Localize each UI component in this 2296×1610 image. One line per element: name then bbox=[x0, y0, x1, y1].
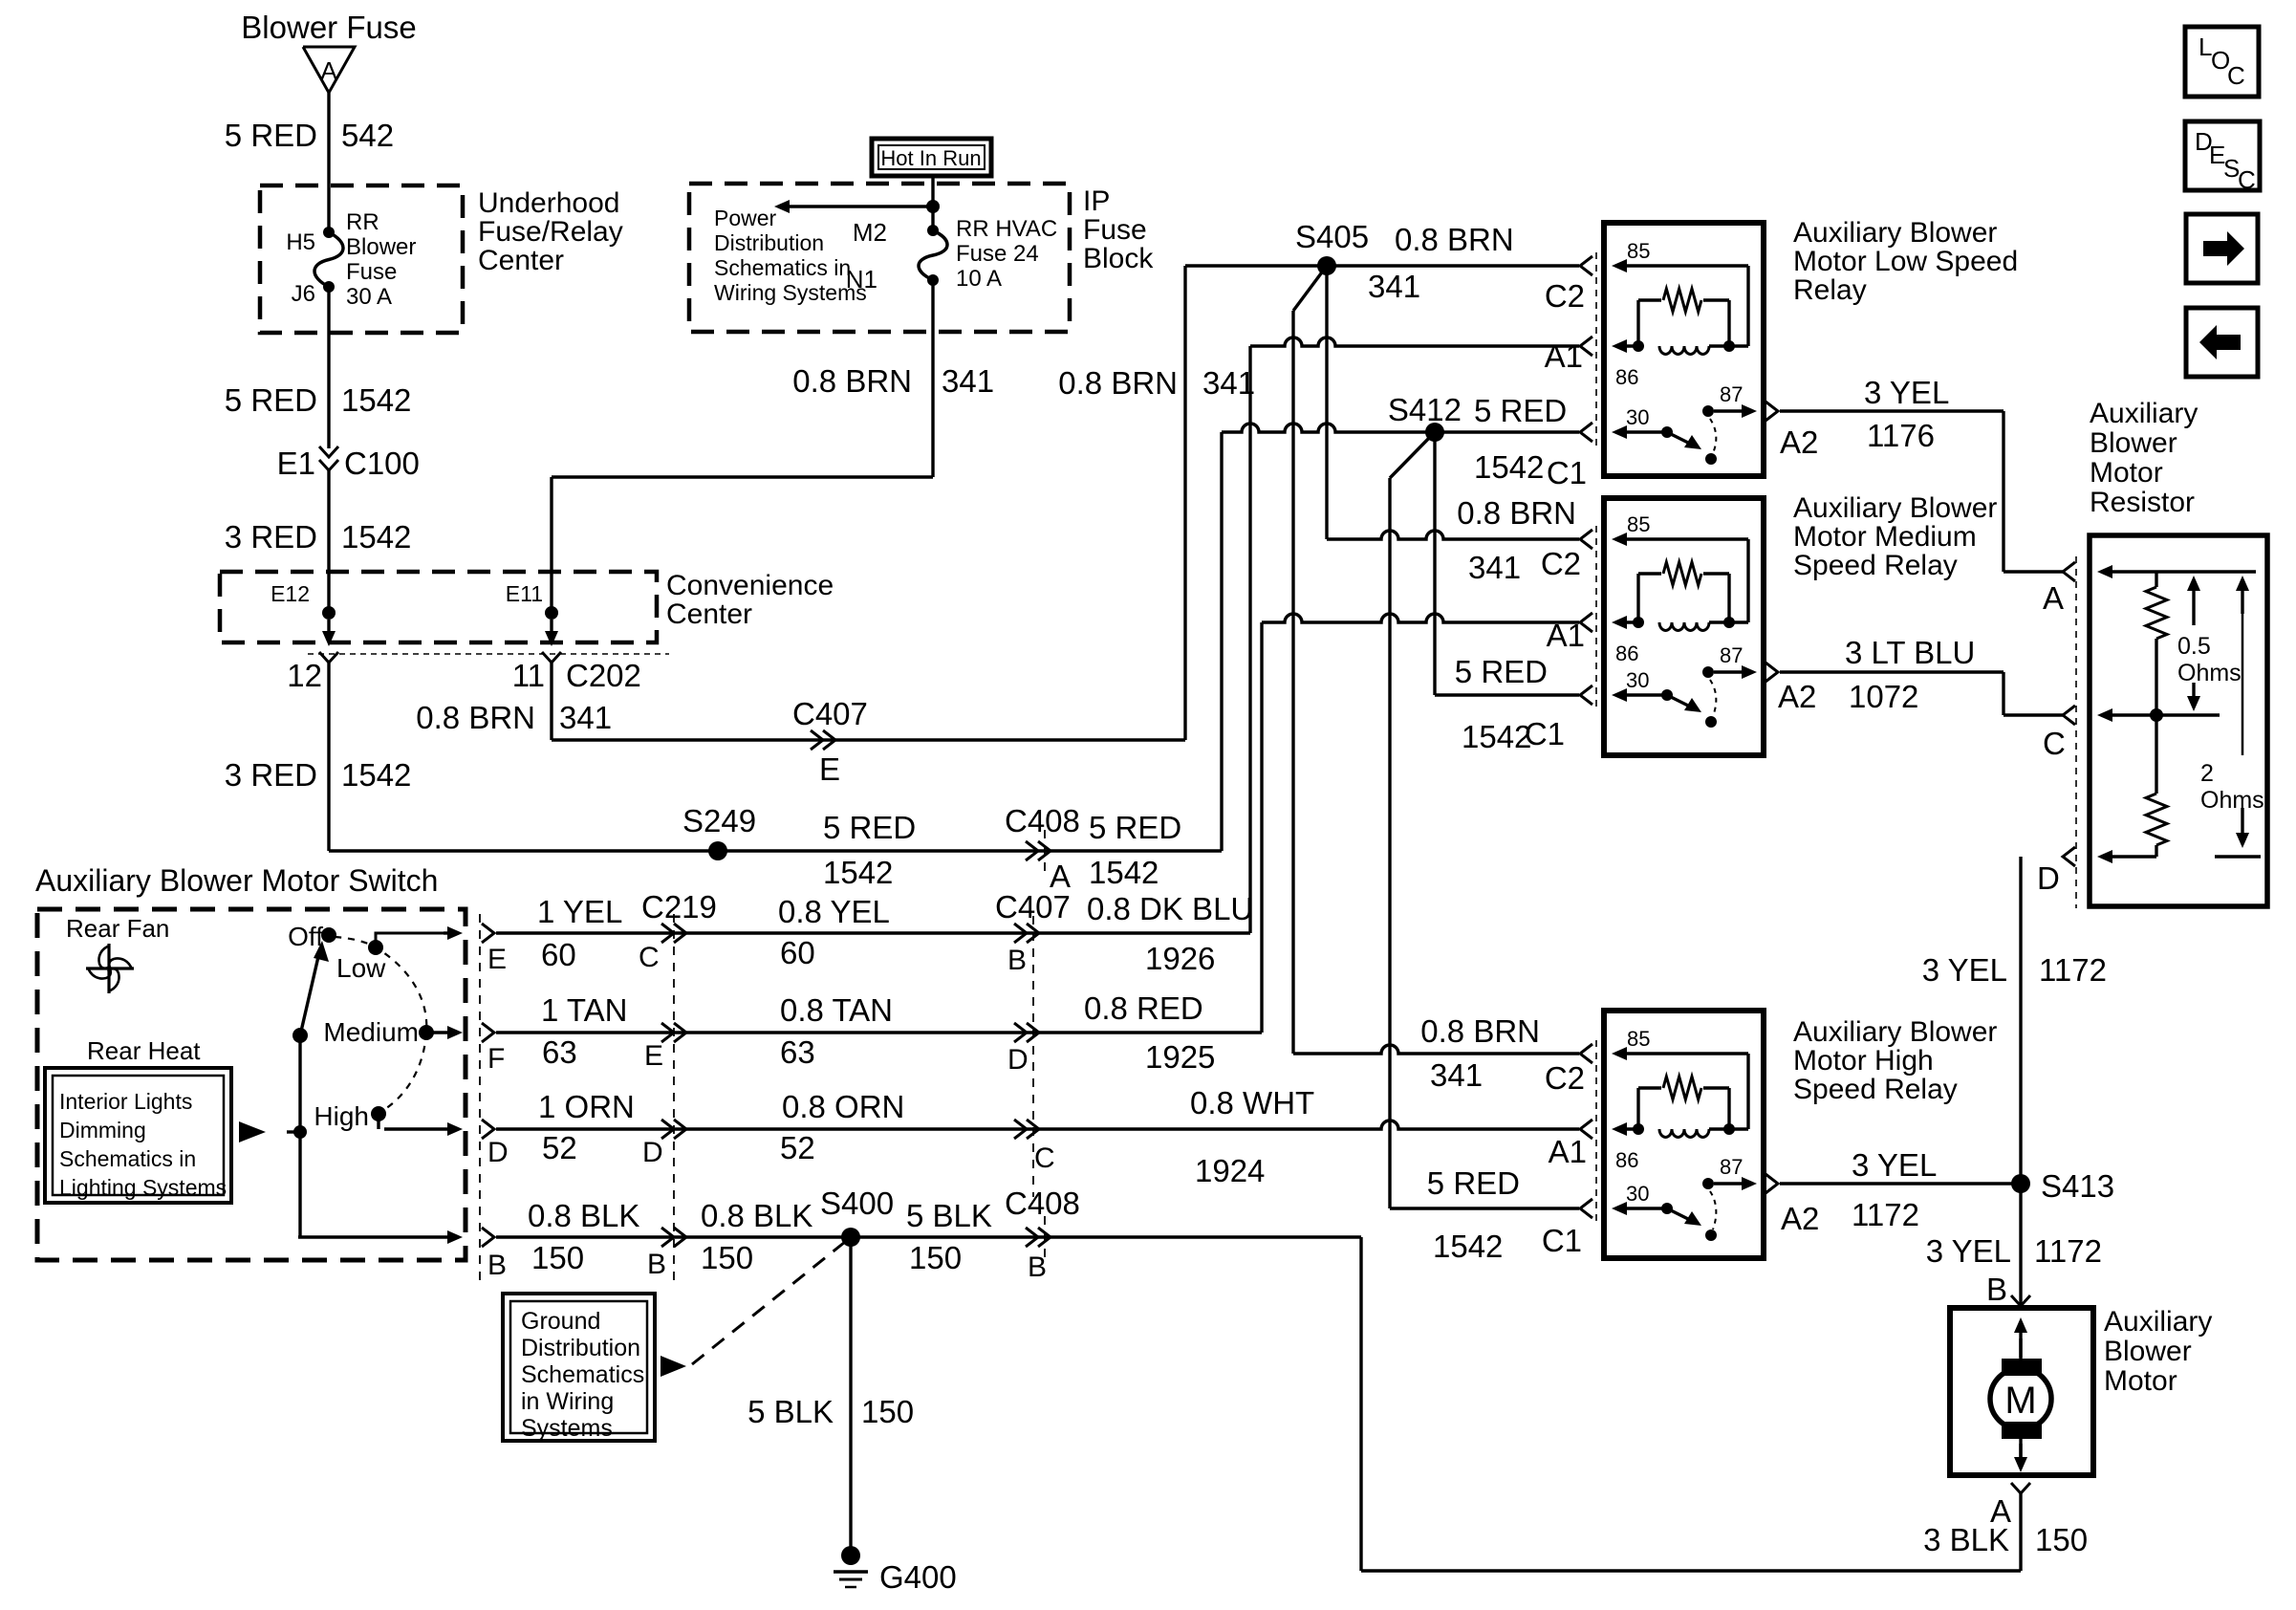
relay Auxiliary Blower Motor Medium Speed Relay connector C2 bbox=[1580, 530, 1592, 549]
svg-text:0.8 BRN: 0.8 BRN bbox=[1420, 1013, 1540, 1049]
wire E11 to connector 11 bbox=[545, 620, 558, 646]
svg-text:3 YEL: 3 YEL bbox=[1864, 375, 1949, 410]
svg-text:A1: A1 bbox=[1549, 1134, 1587, 1169]
relay Auxiliary Blower Motor Low Speed Relay pin 85 bbox=[1612, 239, 1748, 346]
svg-text:0.8 BRN: 0.8 BRN bbox=[1058, 365, 1178, 401]
svg-text:C: C bbox=[2238, 165, 2256, 194]
svg-text:341: 341 bbox=[1468, 550, 1521, 585]
svg-text:1172: 1172 bbox=[2034, 1233, 2102, 1269]
wire 5 BLK 150 to G400 bbox=[849, 1237, 852, 1547]
relay Auxiliary Blower Motor Medium Speed Relay pin 86 coil line bbox=[1612, 616, 1748, 665]
svg-text:60: 60 bbox=[541, 937, 576, 972]
label 5 RED 1542 row left bbox=[823, 810, 916, 890]
button back arrow bbox=[2186, 308, 2258, 377]
svg-text:85: 85 bbox=[1627, 1027, 1650, 1051]
svg-text:0.8 BRN: 0.8 BRN bbox=[792, 363, 912, 399]
relay Auxiliary Blower Motor High Speed Relay pin 87 bbox=[1702, 1155, 1757, 1190]
component box Auxiliary Blower Motor bbox=[1950, 1308, 2093, 1475]
switch contact Low bbox=[336, 940, 386, 983]
wire 0.8 RED 1925 riser to medium A1 bbox=[1262, 614, 1579, 1033]
motor pin B bbox=[1986, 1272, 2030, 1307]
label 0.8 BRN 341 medium C2 bbox=[1457, 495, 1581, 585]
svg-text:86: 86 bbox=[1615, 365, 1638, 389]
label Rear Heat bbox=[87, 1036, 201, 1065]
svg-text:Schematics in: Schematics in bbox=[59, 1146, 196, 1171]
svg-text:S412: S412 bbox=[1388, 392, 1462, 427]
svg-text:C407: C407 bbox=[995, 889, 1071, 925]
svg-text:Ohms: Ohms bbox=[2177, 660, 2242, 686]
label 0.8 YEL 60 bbox=[778, 894, 890, 970]
svg-text:Distribution: Distribution bbox=[714, 230, 824, 255]
connector line C407 (dashed) bbox=[1032, 916, 1034, 1197]
svg-text:52: 52 bbox=[542, 1130, 577, 1165]
connector C408 pin A bbox=[1005, 803, 1080, 894]
svg-text:C1: C1 bbox=[1525, 716, 1565, 751]
ground G400 bbox=[834, 1546, 957, 1595]
label 5 RED 1542 high C1 bbox=[1427, 1165, 1582, 1264]
svg-text:Auxiliary Blower: Auxiliary Blower bbox=[1793, 1016, 1997, 1048]
svg-text:30: 30 bbox=[1626, 405, 1649, 429]
svg-text:C: C bbox=[639, 942, 660, 973]
label 0.8 WHT 1924 bbox=[1190, 1085, 1314, 1188]
svg-text:C: C bbox=[2227, 61, 2245, 90]
svg-text:in Wiring: in Wiring bbox=[521, 1388, 614, 1415]
wire 5 RED 1542 to medium C1 bbox=[1435, 693, 1579, 696]
svg-text:0.8 YEL: 0.8 YEL bbox=[778, 894, 890, 929]
label 0.8 BRN 341 pin11 bbox=[416, 700, 612, 735]
relay box Auxiliary Blower Motor Low Speed Relay bbox=[1604, 223, 1764, 476]
pin E12 bbox=[271, 581, 336, 620]
label 0.8 ORN 52 bbox=[780, 1089, 904, 1165]
relay Auxiliary Blower Motor Medium Speed Relay contact 87 dashed bbox=[1710, 680, 1716, 716]
label row D bbox=[487, 1089, 635, 1168]
wire 0.8 YEL 60 row bbox=[496, 931, 1250, 934]
label 3 YEL 1172 out bbox=[1781, 1147, 1937, 1236]
svg-text:5 RED: 5 RED bbox=[225, 118, 317, 153]
svg-text:0.8 BRN: 0.8 BRN bbox=[1457, 495, 1576, 531]
svg-text:341: 341 bbox=[942, 363, 994, 399]
svg-text:B: B bbox=[647, 1249, 666, 1280]
svg-text:1 ORN: 1 ORN bbox=[538, 1089, 635, 1124]
svg-text:0.8 TAN: 0.8 TAN bbox=[780, 992, 893, 1028]
svg-text:86: 86 bbox=[1615, 642, 1638, 665]
svg-text:5 RED: 5 RED bbox=[823, 810, 916, 845]
svg-text:3 BLK: 3 BLK bbox=[1923, 1522, 2009, 1557]
splice S405 bbox=[1295, 219, 1369, 275]
svg-text:5 BLK: 5 BLK bbox=[906, 1198, 992, 1233]
label 0.8 TAN 63 bbox=[780, 992, 893, 1070]
svg-text:Schematics: Schematics bbox=[521, 1361, 644, 1388]
reference box Interior Lights Dimming bbox=[45, 1068, 231, 1203]
relay Auxiliary Blower Motor Medium Speed Relay pin 30 bbox=[1612, 668, 1673, 702]
svg-text:Motor Low Speed: Motor Low Speed bbox=[1793, 246, 2018, 277]
svg-text:0.8 ORN: 0.8 ORN bbox=[782, 1089, 904, 1124]
wire 3 RED 1542 upper bbox=[327, 470, 330, 613]
relay Auxiliary Blower Motor Low Speed Relay connector A1 bbox=[1580, 337, 1592, 356]
label Convenience Center bbox=[666, 570, 834, 630]
svg-text:87: 87 bbox=[1720, 1155, 1743, 1179]
svg-text:C408: C408 bbox=[1005, 803, 1080, 838]
connector pin F chevron bbox=[482, 1023, 494, 1042]
label relay medium speed bbox=[1793, 492, 1997, 581]
connector C202 pin 12 bbox=[287, 652, 338, 693]
resistor pin A bbox=[2043, 562, 2256, 616]
label 3 RED 1542 upper bbox=[225, 519, 412, 555]
wire 1 YEL 60 row E bbox=[376, 926, 463, 947]
svg-text:Schematics in: Schematics in bbox=[714, 255, 851, 280]
label row B bbox=[487, 1198, 639, 1281]
label Auxiliary Blower Motor Switch bbox=[35, 863, 438, 898]
svg-text:C2: C2 bbox=[1545, 278, 1585, 314]
svg-text:52: 52 bbox=[780, 1130, 815, 1165]
pin E11 bbox=[506, 581, 558, 620]
label Auxiliary Blower Motor bbox=[2104, 1306, 2212, 1397]
svg-text:5 RED: 5 RED bbox=[1427, 1165, 1520, 1201]
label Power Distribution Schematics in Wiring Systems bbox=[714, 206, 867, 305]
svg-text:C: C bbox=[1034, 1142, 1055, 1174]
wire S412 to high relay C1 riser bbox=[1390, 432, 1435, 1208]
label 0.8 BRN 341 low C2 bbox=[1368, 222, 1585, 314]
svg-text:Power: Power bbox=[714, 206, 777, 230]
wire 5 RED 1542 bbox=[327, 287, 330, 448]
label row F bbox=[487, 992, 627, 1075]
button DESC bbox=[2185, 121, 2260, 194]
svg-text:1926: 1926 bbox=[1145, 941, 1215, 976]
svg-text:M2: M2 bbox=[853, 218, 887, 247]
relay Auxiliary Blower Motor Medium Speed Relay contact arm bbox=[1667, 695, 1717, 728]
connector C407 pin E bbox=[792, 696, 868, 787]
connector pin D chevron bbox=[482, 1120, 494, 1139]
svg-text:S413: S413 bbox=[2041, 1168, 2114, 1204]
svg-text:30: 30 bbox=[1626, 668, 1649, 692]
svg-text:C408: C408 bbox=[1005, 1186, 1080, 1221]
svg-text:150: 150 bbox=[909, 1240, 962, 1275]
svg-text:H5: H5 bbox=[286, 229, 315, 255]
relay Auxiliary Blower Motor Medium Speed Relay output A2 bbox=[1765, 663, 1778, 682]
pin M2 bbox=[853, 218, 939, 247]
svg-text:0.8 DK BLU: 0.8 DK BLU bbox=[1087, 891, 1253, 926]
svg-text:1172: 1172 bbox=[2039, 952, 2107, 988]
svg-text:1072: 1072 bbox=[1849, 679, 1918, 714]
svg-text:C1: C1 bbox=[1547, 455, 1587, 490]
svg-text:Motor: Motor bbox=[2090, 457, 2163, 489]
wire 5 RED 1542 to low relay C1 bbox=[1222, 424, 1579, 432]
svg-text:3 YEL: 3 YEL bbox=[1852, 1147, 1937, 1183]
label IP Fuse Block bbox=[1083, 185, 1154, 274]
relay Auxiliary Blower Motor Medium Speed Relay connector C1 bbox=[1580, 685, 1592, 705]
wire 0.8 BLK 150 row B bbox=[298, 1230, 463, 1244]
svg-text:B: B bbox=[1028, 1251, 1047, 1283]
switch contact Medium bbox=[323, 1017, 434, 1047]
svg-text:Dimming: Dimming bbox=[59, 1118, 146, 1142]
svg-text:Resistor: Resistor bbox=[2090, 487, 2195, 518]
component box Auxiliary Blower Motor Resistor bbox=[2090, 535, 2267, 906]
relay Auxiliary Blower Motor Medium Speed Relay pin 85 bbox=[1612, 512, 1748, 622]
wire 3 YEL 1172 to S413 bbox=[1780, 1182, 2021, 1185]
connector pin E chevron bbox=[482, 924, 494, 943]
wire 3 YEL 1172 to motor B bbox=[2019, 1184, 2022, 1308]
svg-text:150: 150 bbox=[2035, 1522, 2088, 1557]
wire 0.8 BRN 341 to high C2 bbox=[1293, 1045, 1579, 1054]
svg-text:341: 341 bbox=[1368, 269, 1420, 304]
svg-text:1924: 1924 bbox=[1195, 1153, 1265, 1188]
label relay high speed bbox=[1793, 1016, 1997, 1105]
svg-text:Center: Center bbox=[666, 598, 752, 630]
svg-text:1172: 1172 bbox=[1852, 1197, 1919, 1232]
component box Underhood Fuse/Relay Center bbox=[260, 185, 463, 333]
svg-text:D: D bbox=[487, 1137, 509, 1168]
label 5 RED 1542 row right bbox=[1089, 810, 1181, 890]
svg-text:3 LT BLU: 3 LT BLU bbox=[1845, 635, 1975, 670]
label 3 YEL 1172 lower bbox=[1926, 1233, 2102, 1269]
svg-text:341: 341 bbox=[1202, 365, 1255, 401]
svg-text:30 A: 30 A bbox=[346, 284, 392, 310]
dimension 0.5 Ohms bbox=[2177, 576, 2242, 711]
label 3 LT BLU 1072 bbox=[1778, 635, 1975, 714]
button LOC bbox=[2185, 27, 2259, 97]
label Auxiliary Blower Motor Resistor bbox=[2090, 398, 2198, 518]
wire 0.8 BRN 341 from pin 11 bbox=[550, 663, 552, 740]
dimension 2 Ohms bbox=[2200, 576, 2264, 848]
svg-text:C407: C407 bbox=[792, 696, 868, 731]
svg-text:0.8 BRN: 0.8 BRN bbox=[1395, 222, 1514, 257]
relay Auxiliary Blower Motor Low Speed Relay connector dashed line bbox=[1595, 252, 1597, 447]
svg-text:1542: 1542 bbox=[341, 757, 411, 793]
label 5 RED 542 bbox=[225, 118, 394, 153]
svg-text:E: E bbox=[644, 1040, 663, 1072]
svg-text:RR: RR bbox=[346, 209, 379, 235]
svg-text:Auxiliary Blower Motor Switch: Auxiliary Blower Motor Switch bbox=[35, 863, 438, 898]
motor symbol M bbox=[1990, 1317, 2051, 1472]
resistor element lower 2 ohm bbox=[2146, 715, 2167, 857]
label Blower Fuse bbox=[241, 10, 416, 45]
svg-text:C202: C202 bbox=[566, 658, 641, 693]
label 0.8 BLK 150 second bbox=[701, 1198, 812, 1275]
wire 0.8 BRN 341 row C407E bbox=[552, 266, 1185, 740]
svg-text:0.5: 0.5 bbox=[2177, 633, 2211, 660]
wire 0.8 BRN 341 from IP fuse bbox=[552, 280, 933, 613]
switch arm common wire bbox=[298, 1035, 301, 1237]
relay Auxiliary Blower Motor Low Speed Relay pin 86 coil line bbox=[1612, 339, 1748, 389]
svg-text:A: A bbox=[320, 56, 337, 85]
svg-text:C2: C2 bbox=[1545, 1060, 1585, 1096]
resistor element upper 0.5 ohm bbox=[2146, 572, 2167, 715]
switch contact Off bbox=[288, 922, 336, 951]
svg-text:0.8 RED: 0.8 RED bbox=[1084, 990, 1203, 1026]
connector C408 pin B bbox=[1005, 1186, 1080, 1283]
component box Convenience Center bbox=[220, 572, 657, 642]
svg-text:Rear Heat: Rear Heat bbox=[87, 1036, 201, 1065]
svg-text:Ground: Ground bbox=[521, 1308, 600, 1335]
svg-text:High: High bbox=[314, 1101, 369, 1131]
switch detent arc bbox=[335, 937, 426, 1112]
wire 0.8 TAN 63 row bbox=[496, 1031, 1262, 1033]
relay Auxiliary Blower Motor Low Speed Relay pin 87 bbox=[1702, 382, 1757, 418]
svg-text:1 TAN: 1 TAN bbox=[541, 992, 627, 1028]
svg-text:1542: 1542 bbox=[1089, 855, 1159, 890]
fuse RR HVAC Fuse 24 10 A bbox=[919, 216, 1057, 292]
svg-text:Blower: Blower bbox=[2104, 1336, 2192, 1367]
svg-text:85: 85 bbox=[1627, 239, 1650, 263]
relay box Auxiliary Blower Motor High Speed Relay bbox=[1604, 1011, 1764, 1258]
svg-text:30: 30 bbox=[1626, 1182, 1649, 1206]
connector C407 pin C bbox=[1014, 1120, 1055, 1174]
svg-text:542: 542 bbox=[341, 118, 394, 153]
reference box Ground Distribution bbox=[503, 1294, 655, 1442]
svg-text:3 RED: 3 RED bbox=[225, 519, 317, 555]
svg-text:5 RED: 5 RED bbox=[1089, 810, 1181, 845]
splice S413 bbox=[2011, 1168, 2114, 1204]
relay Auxiliary Blower Motor Medium Speed Relay connector A1 bbox=[1580, 613, 1592, 632]
svg-text:Hot In Run: Hot In Run bbox=[880, 146, 981, 170]
svg-text:Block: Block bbox=[1083, 243, 1154, 274]
svg-text:1542: 1542 bbox=[341, 519, 411, 555]
connector line C219 (dashed) bbox=[673, 914, 675, 1281]
switch contact High bbox=[314, 1101, 386, 1131]
svg-text:C: C bbox=[2043, 726, 2066, 761]
svg-text:0.8 BLK: 0.8 BLK bbox=[701, 1198, 812, 1233]
svg-text:Speed Relay: Speed Relay bbox=[1793, 1074, 1958, 1105]
label 0.8 BRN 341 riser bbox=[1058, 365, 1255, 401]
relay Auxiliary Blower Motor Low Speed Relay output A2 bbox=[1765, 402, 1778, 421]
connector C100 pin E1 bbox=[277, 446, 420, 481]
svg-text:C100: C100 bbox=[344, 446, 420, 481]
svg-text:Interior Lights: Interior Lights bbox=[59, 1089, 192, 1114]
splice S400 bbox=[820, 1186, 894, 1247]
relay Auxiliary Blower Motor High Speed Relay pin 30 bbox=[1612, 1182, 1673, 1215]
relay Auxiliary Blower Motor Medium Speed Relay pin 87 bbox=[1702, 643, 1757, 679]
label 3 YEL 1176 bbox=[1780, 375, 1949, 460]
splice S249 bbox=[682, 803, 756, 860]
connector stub C408 B (dashed) bbox=[1044, 1216, 1046, 1260]
svg-text:3 YEL: 3 YEL bbox=[1926, 1233, 2011, 1269]
svg-text:Fuse 24: Fuse 24 bbox=[956, 241, 1039, 267]
component box IP Fuse Block bbox=[689, 184, 1070, 332]
label 5 RED 1542 medium C1 bbox=[1455, 654, 1565, 754]
node power distribution junction bbox=[926, 200, 940, 213]
svg-text:Auxiliary: Auxiliary bbox=[2090, 398, 2198, 429]
power feed box Hot In Run bbox=[872, 139, 991, 176]
svg-text:B: B bbox=[1007, 945, 1027, 976]
svg-text:1176: 1176 bbox=[1867, 418, 1935, 453]
svg-text:86: 86 bbox=[1615, 1148, 1638, 1172]
label Underhood Fuse/Relay Center bbox=[478, 187, 623, 276]
svg-text:2: 2 bbox=[2200, 760, 2214, 787]
svg-text:Speed Relay: Speed Relay bbox=[1793, 550, 1958, 581]
relay Auxiliary Blower Motor Low Speed Relay connector C2 bbox=[1580, 256, 1592, 275]
wire 3 RED 1542 lower bbox=[327, 663, 330, 851]
wire 5 RED 542 bbox=[327, 93, 330, 185]
svg-text:G400: G400 bbox=[879, 1559, 957, 1595]
svg-text:A2: A2 bbox=[1781, 1201, 1819, 1236]
label 5 RED 1542 bbox=[225, 382, 412, 418]
motor pin A bbox=[1990, 1483, 2030, 1529]
svg-text:B: B bbox=[487, 1250, 507, 1281]
svg-text:N1: N1 bbox=[846, 265, 877, 294]
svg-text:3 RED: 3 RED bbox=[225, 757, 317, 793]
svg-text:Distribution: Distribution bbox=[521, 1335, 640, 1361]
svg-text:Low: Low bbox=[336, 953, 386, 983]
relay Auxiliary Blower Motor High Speed Relay contact arm bbox=[1667, 1208, 1717, 1241]
svg-text:Auxiliary: Auxiliary bbox=[2104, 1306, 2212, 1338]
label 5 RED 1542 low C1 bbox=[1474, 393, 1587, 490]
svg-text:Motor High: Motor High bbox=[1793, 1045, 1934, 1077]
svg-text:E11: E11 bbox=[506, 581, 543, 606]
svg-text:S405: S405 bbox=[1295, 219, 1369, 254]
resistor node C junction bbox=[2150, 708, 2163, 722]
svg-text:Blower: Blower bbox=[2090, 427, 2177, 459]
fuse symbol A (Blower Fuse triangle) bbox=[303, 47, 355, 93]
svg-text:D: D bbox=[1007, 1044, 1029, 1076]
svg-text:C219: C219 bbox=[641, 889, 717, 925]
label Rear Fan bbox=[66, 914, 169, 943]
wire 3 BLK 150 bbox=[1361, 1237, 2021, 1571]
svg-text:341: 341 bbox=[1430, 1057, 1483, 1093]
connector C219 pin B bbox=[647, 1228, 686, 1280]
icon rear fan bbox=[86, 944, 134, 993]
pin N1 bbox=[846, 265, 939, 294]
connector C407 pin D bbox=[1007, 1023, 1039, 1076]
label A1 medium bbox=[1547, 618, 1585, 653]
svg-text:12: 12 bbox=[287, 658, 322, 693]
resistor connector dashed line bbox=[2075, 556, 2077, 908]
connector line switch (dashed) bbox=[479, 914, 481, 1281]
svg-text:Blower: Blower bbox=[346, 234, 416, 260]
resistor pin C bbox=[2043, 706, 2220, 761]
wire S405 to high relay C2 riser bbox=[1293, 266, 1327, 1054]
svg-text:A: A bbox=[2043, 580, 2064, 616]
relay Auxiliary Blower Motor Medium Speed Relay connector dashed line bbox=[1595, 526, 1597, 710]
wire 0.8 DK BLU 1926 riser to low A1 bbox=[1250, 337, 1579, 933]
svg-text:D: D bbox=[2037, 860, 2060, 896]
component box Auxiliary Blower Motor Switch bbox=[37, 909, 466, 1260]
relay Auxiliary Blower Motor Medium Speed Relay coil resistor bbox=[1638, 562, 1729, 622]
svg-text:Wiring Systems: Wiring Systems bbox=[714, 280, 867, 305]
arrow interior lights to switch bbox=[239, 1121, 307, 1142]
connector C219 title bbox=[641, 889, 717, 925]
svg-text:5 RED: 5 RED bbox=[1455, 654, 1548, 689]
svg-text:Lighting Systems: Lighting Systems bbox=[59, 1175, 227, 1200]
svg-text:5 RED: 5 RED bbox=[225, 382, 317, 418]
label 5 BLK 150 bbox=[906, 1198, 992, 1275]
svg-text:150: 150 bbox=[701, 1240, 753, 1275]
svg-text:E: E bbox=[819, 751, 840, 787]
dashed wire to S400 bbox=[692, 1242, 845, 1364]
svg-text:85: 85 bbox=[1627, 512, 1650, 536]
wire 0.8 ORN 52 / 0.8 WHT 1924 row bbox=[496, 1120, 1579, 1129]
wire S412 to medium relay C1 riser bbox=[1433, 432, 1436, 695]
svg-text:J6: J6 bbox=[292, 281, 315, 307]
svg-text:60: 60 bbox=[780, 935, 815, 970]
label 3 BLK 150 bbox=[1923, 1522, 2088, 1557]
label A1 low bbox=[1545, 338, 1583, 374]
svg-text:63: 63 bbox=[542, 1034, 577, 1070]
pin H5 bbox=[286, 227, 335, 255]
svg-text:Fuse: Fuse bbox=[346, 259, 397, 285]
resistor pin D bbox=[2037, 847, 2156, 896]
svg-text:E1: E1 bbox=[277, 446, 315, 481]
svg-text:Fuse/Relay: Fuse/Relay bbox=[478, 216, 623, 248]
svg-text:Center: Center bbox=[478, 245, 564, 276]
svg-text:87: 87 bbox=[1720, 643, 1743, 667]
svg-text:150: 150 bbox=[861, 1394, 914, 1429]
svg-text:Motor: Motor bbox=[2104, 1365, 2177, 1397]
svg-text:87: 87 bbox=[1720, 382, 1743, 406]
fuse RR Blower Fuse 30 A bbox=[314, 209, 416, 310]
svg-text:RR HVAC: RR HVAC bbox=[956, 216, 1057, 242]
svg-text:Underhood: Underhood bbox=[478, 187, 619, 219]
svg-text:Convenience: Convenience bbox=[666, 570, 834, 601]
